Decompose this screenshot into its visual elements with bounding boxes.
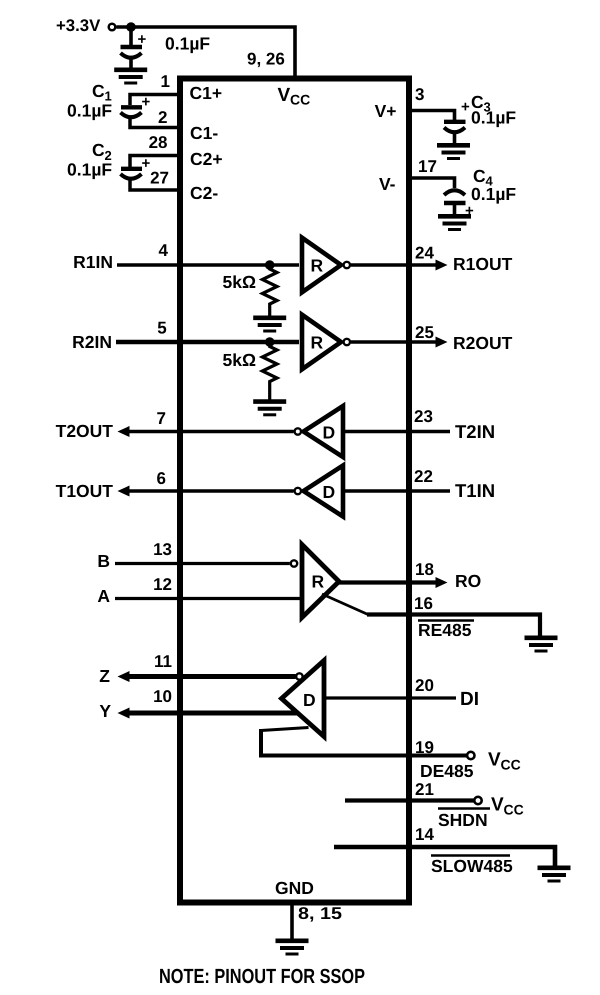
- ground at resistor R2: [253, 402, 286, 415]
- svg-text:12: 12: [153, 575, 172, 594]
- resistor R2 5k zigzag: [262, 342, 277, 400]
- terminal DE485 open circle: [467, 752, 474, 759]
- svg-text:10: 10: [153, 687, 172, 706]
- op-amp driver D485 triangle: [282, 661, 325, 737]
- svg-text:16: 16: [414, 594, 433, 613]
- pin 4 wire R1IN: [117, 263, 299, 267]
- svg-text:V-: V-: [379, 174, 396, 194]
- arrow T2OUT: [118, 426, 130, 437]
- pin 1 wire: [130, 95, 177, 106]
- capacitor C2 curved plate: [121, 174, 142, 179]
- svg-text:0.1µF: 0.1µF: [67, 101, 112, 121]
- svg-text:T2OUT: T2OUT: [56, 421, 114, 441]
- driver D485 inverting bubble Z: [296, 673, 302, 679]
- node RE485 label with overline: [418, 619, 474, 621]
- svg-text:28: 28: [149, 133, 168, 152]
- arrow R1OUT: [436, 260, 448, 271]
- capacitor C2 bottom lead and pin 27 wire: [130, 178, 177, 190]
- buffer R1 inverting bubble: [344, 262, 350, 268]
- svg-text:T1OUT: T1OUT: [56, 481, 114, 501]
- svg-text:27: 27: [150, 169, 169, 188]
- svg-text:R1OUT: R1OUT: [453, 254, 513, 274]
- resistor R1 5k zigzag: [262, 265, 277, 316]
- svg-text:19: 19: [415, 738, 434, 757]
- svg-text:T2IN: T2IN: [455, 421, 495, 442]
- svg-text:0.1µF: 0.1µF: [67, 160, 112, 180]
- svg-text:V+: V+: [375, 101, 397, 121]
- ground at C4: [438, 216, 471, 229]
- capacitor C3 top plate: [444, 120, 466, 124]
- terminal +3.3V open circle: [109, 24, 116, 31]
- op-amp buffer T1 triangle: [304, 466, 344, 517]
- svg-text:A: A: [97, 586, 110, 606]
- capacitor C3 bottom lead: [453, 132, 457, 144]
- svg-text:21: 21: [415, 780, 434, 799]
- svg-text:R2OUT: R2OUT: [453, 333, 513, 353]
- op-amp receiver R485 triangle: [302, 545, 339, 618]
- IC body U1: [180, 79, 409, 903]
- node SLOW485 label with overline: [431, 854, 510, 856]
- svg-text:5kΩ: 5kΩ: [223, 350, 257, 370]
- ground at GND pin: [276, 941, 309, 954]
- svg-text:DI: DI: [460, 689, 479, 710]
- svg-text:5: 5: [157, 319, 166, 338]
- svg-text:CC: CC: [501, 757, 521, 773]
- svg-text:24: 24: [415, 244, 434, 263]
- node SHDN label with overline: [438, 807, 490, 809]
- capacitor C1 curved plate: [121, 113, 142, 118]
- svg-text:17: 17: [418, 157, 437, 176]
- capacitor C1 bottom lead and pin 2 wire: [130, 117, 177, 128]
- wire RE485 enable diagonal: [322, 594, 368, 615]
- pin 13 wire B: [115, 562, 290, 565]
- pin 18 wire RO: [338, 580, 438, 584]
- pin 28 wire: [130, 156, 177, 168]
- svg-text:14: 14: [415, 825, 434, 844]
- svg-text:7: 7: [157, 409, 166, 428]
- op-amp buffer R1 triangle: [302, 238, 341, 293]
- svg-text:C: C: [92, 81, 105, 101]
- pin 10 wire Y: [127, 711, 297, 716]
- svg-text:SHDN: SHDN: [438, 810, 488, 830]
- svg-text:+: +: [461, 98, 470, 115]
- wire +3.3V to VCC pin: [116, 27, 295, 77]
- svg-text:+: +: [142, 94, 151, 111]
- svg-text:R: R: [312, 572, 325, 592]
- svg-text:+: +: [138, 31, 147, 48]
- pin 5 wire R2IN: [116, 340, 299, 345]
- svg-text:18: 18: [415, 560, 434, 579]
- svg-text:0.1µF: 0.1µF: [471, 108, 516, 128]
- svg-text:C: C: [473, 166, 486, 186]
- svg-text:Y: Y: [99, 701, 111, 721]
- svg-text:C1-: C1-: [190, 123, 218, 143]
- ground at resistor R1: [253, 318, 286, 331]
- svg-text:R: R: [311, 256, 324, 276]
- buffer T1 inverting bubble: [295, 488, 301, 494]
- capacitor C4 bottom lead: [453, 203, 457, 215]
- pin 17 wire V-: [409, 178, 455, 188]
- capacitor C2 top plate: [121, 167, 142, 171]
- ground at RE485: [525, 638, 558, 651]
- svg-text:NOTE: PINOUT FOR SSOP: NOTE: PINOUT FOR SSOP: [159, 965, 365, 988]
- pin 7 wire T2OUT: [127, 430, 294, 434]
- svg-text:R2IN: R2IN: [72, 332, 112, 352]
- junction dot R2 resistor: [265, 337, 275, 347]
- wire DE485 enable sloped segment: [261, 728, 309, 731]
- svg-text:11: 11: [154, 652, 172, 671]
- svg-text:B: B: [97, 551, 110, 571]
- buffer R2 inverting bubble: [344, 339, 350, 345]
- svg-text:20: 20: [415, 676, 434, 695]
- junction dot at bypass cap: [126, 22, 136, 32]
- capacitor bypass 0.1uF plus lead: [129, 27, 133, 46]
- svg-text:1: 1: [161, 72, 170, 91]
- svg-text:0.1µF: 0.1µF: [165, 34, 210, 54]
- svg-text:Z: Z: [99, 666, 110, 686]
- arrow R2OUT: [436, 337, 448, 348]
- svg-text:13: 13: [153, 540, 172, 559]
- svg-text:SLOW485: SLOW485: [431, 856, 513, 876]
- pin 21 wire SHDN: [345, 798, 474, 802]
- op-amp buffer R2 triangle: [302, 315, 341, 370]
- capacitor C4 curved plate: [444, 190, 465, 195]
- svg-text:22: 22: [414, 467, 433, 486]
- pin 6 wire T1OUT: [127, 489, 294, 493]
- arrow Z: [118, 671, 130, 682]
- svg-text:2: 2: [158, 108, 167, 127]
- op-amp buffer T2 triangle: [304, 406, 344, 457]
- svg-text:C1+: C1+: [190, 83, 223, 103]
- svg-text:5kΩ: 5kΩ: [223, 272, 257, 292]
- svg-text:C2-: C2-: [190, 183, 218, 203]
- svg-text:9, 26: 9, 26: [247, 50, 285, 69]
- svg-text:V: V: [488, 750, 501, 771]
- pin 12 wire A: [115, 597, 302, 600]
- svg-text:RO: RO: [455, 571, 481, 591]
- svg-text:3: 3: [415, 85, 424, 104]
- ground at bypass cap: [114, 70, 147, 83]
- capacitor bypass curved plate: [121, 53, 142, 58]
- svg-text:23: 23: [414, 407, 433, 426]
- capacitor C4 bottom plate: [444, 201, 466, 205]
- ground at C3: [437, 145, 470, 158]
- svg-text:C: C: [92, 140, 105, 160]
- ground at SLOW485: [538, 868, 571, 881]
- pin 22 wire T1IN: [343, 489, 450, 493]
- arrow RO: [436, 577, 448, 588]
- svg-text:R1IN: R1IN: [73, 252, 113, 272]
- svg-text:CC: CC: [290, 91, 310, 107]
- svg-text:D: D: [323, 482, 336, 502]
- terminal SHDN open circle: [474, 797, 481, 804]
- capacitor bypass bottom lead: [129, 57, 133, 68]
- junction dot R1 resistor: [265, 260, 275, 270]
- capacitor bypass top plate: [121, 45, 143, 49]
- wire RE485 to ground: [367, 615, 540, 637]
- svg-text:0.1µF: 0.1µF: [471, 184, 516, 204]
- svg-text:T1IN: T1IN: [455, 480, 495, 501]
- svg-text:V: V: [491, 795, 504, 816]
- pin 20 wire DI: [324, 696, 456, 699]
- svg-text:C2+: C2+: [190, 149, 223, 169]
- capacitor C3 curved plate: [444, 128, 465, 133]
- pin 11 wire Z: [127, 674, 296, 679]
- svg-text:+3.3V: +3.3V: [56, 16, 101, 35]
- svg-text:DE485: DE485: [420, 761, 474, 781]
- wire R1OUT: [351, 263, 438, 267]
- svg-text:D: D: [303, 690, 316, 710]
- svg-text:RE485: RE485: [418, 620, 472, 640]
- wire R2OUT: [351, 340, 438, 344]
- pin 23 wire T2IN: [343, 430, 450, 434]
- wire DE485 to VCC terminal: [261, 729, 467, 756]
- pin 3 wire V+: [409, 111, 455, 121]
- svg-text:D: D: [323, 423, 336, 443]
- svg-text:R: R: [311, 333, 324, 353]
- svg-text:8, 15: 8, 15: [298, 904, 342, 923]
- wire GND pin to ground: [290, 903, 294, 940]
- svg-text:V: V: [278, 85, 291, 106]
- svg-text:25: 25: [415, 323, 434, 342]
- svg-text:6: 6: [157, 469, 166, 488]
- capacitor C1 top plate: [121, 105, 142, 109]
- buffer T2 inverting bubble: [295, 428, 301, 434]
- pin 14 wire SLOW485: [334, 847, 555, 866]
- arrow Y: [118, 708, 130, 719]
- arrow T1OUT: [118, 486, 130, 497]
- svg-text:GND: GND: [275, 878, 314, 898]
- receiver R485 inverting bubble B: [291, 560, 297, 566]
- svg-text:4: 4: [159, 241, 169, 260]
- svg-text:CC: CC: [504, 802, 524, 818]
